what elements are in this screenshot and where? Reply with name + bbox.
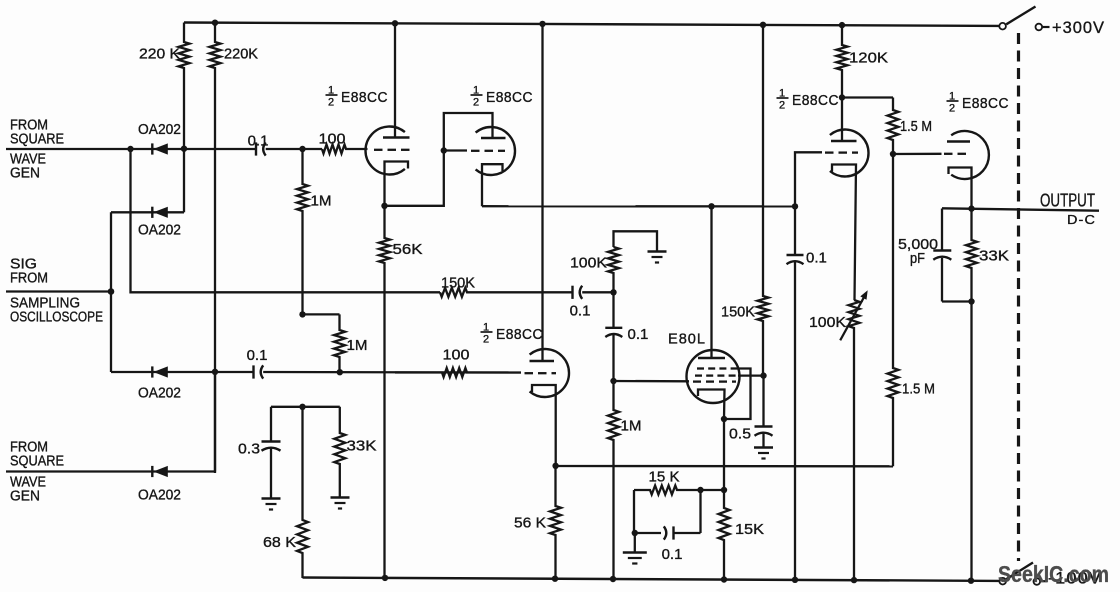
svg-text:56K: 56K bbox=[393, 241, 423, 258]
node: 15K net left junction bbox=[697, 487, 703, 493]
ground (0.5 cap) bbox=[754, 446, 773, 448]
node: V2 grid junction bbox=[441, 147, 447, 153]
resistor 56K (V1 cathode) bbox=[379, 206, 390, 578]
svg-text:150K: 150K bbox=[441, 275, 475, 292]
wire: 0.3/33K row bbox=[271, 406, 340, 408]
node: rail junction 1M-E80L bbox=[610, 576, 616, 582]
node: V4 anode junction bbox=[839, 94, 845, 100]
wire: sampling scope input line bbox=[6, 290, 111, 292]
wire: chassis boundary (dashed) bbox=[1017, 33, 1020, 561]
resistor 220K (right) bbox=[210, 23, 221, 372]
V5 cathode bbox=[949, 168, 972, 209]
svg-text:2: 2 bbox=[949, 103, 955, 115]
node: D3 / 220K-right / D4 junction bbox=[212, 369, 218, 375]
node: junction 1M-1 bbox=[299, 146, 305, 152]
node: rail junction 56K-V1 bbox=[382, 575, 388, 581]
node: E80L grid junction bbox=[610, 378, 616, 384]
node: rail junction tube1 anode bbox=[392, 20, 398, 26]
svg-text:OSCILLOSCOPE: OSCILLOSCOPE bbox=[10, 310, 103, 326]
E80L suppressor grid g3 + tie to cathode bbox=[697, 369, 751, 420]
svg-text:0.1: 0.1 bbox=[662, 546, 683, 563]
resistor 1M (second) bbox=[303, 314, 346, 372]
resistor 220K (left) bbox=[179, 23, 190, 149]
svg-text:100K: 100K bbox=[570, 255, 607, 272]
wire: riser from top line to 150K row bbox=[131, 149, 441, 292]
node: output junction bbox=[968, 205, 974, 211]
V2 anode loop from grid node bbox=[444, 113, 493, 151]
resistor 150K (screen dropper) bbox=[758, 25, 769, 376]
ground (33K) bbox=[331, 496, 350, 498]
svg-text:OA202: OA202 bbox=[138, 223, 181, 239]
label 5,000 pF bbox=[898, 236, 938, 267]
tube V2 1/2 E88CC envelope bbox=[476, 127, 515, 175]
diode OA202 D4 bbox=[151, 466, 153, 477]
svg-text:FROM: FROM bbox=[10, 271, 48, 287]
node: E80L anode junction bbox=[708, 203, 714, 209]
switch S2 (-100V) bbox=[999, 578, 1006, 585]
resistor 1.5M (level shift lower) bbox=[888, 154, 899, 466]
svg-text:OA202: OA202 bbox=[138, 122, 181, 138]
node: 100K / E80L grid feed junction bbox=[610, 289, 616, 295]
node: 15K network junction (right) bbox=[721, 487, 727, 493]
svg-text:pF: pF bbox=[910, 250, 925, 267]
svg-text:OA202: OA202 bbox=[138, 386, 181, 402]
svg-text:220 K: 220 K bbox=[139, 47, 180, 63]
tube V4 1/2 E88CC envelope bbox=[830, 130, 869, 177]
svg-text:SQUARE: SQUARE bbox=[10, 132, 64, 148]
resistor 150K (series) bbox=[440, 288, 573, 297]
wire: 100K top to ground bbox=[614, 231, 658, 251]
svg-text:GEN: GEN bbox=[10, 489, 40, 505]
V3 anode lead + plate bar bbox=[541, 24, 543, 361]
node: V1 cathode junction bbox=[381, 203, 387, 209]
wire: output network to -100V rail bbox=[970, 302, 972, 581]
capacitor 0.1 (V2 cathode bus bypass) bbox=[787, 206, 804, 579]
resistor 120K (V4 plate load) bbox=[837, 25, 848, 97]
V2 grid wire + dashes bbox=[444, 149, 467, 151]
ground (15K network) bbox=[623, 533, 647, 564]
svg-text:GEN: GEN bbox=[10, 166, 40, 182]
node: rail junction tube3 anode bbox=[539, 21, 545, 27]
svg-text:68 K: 68 K bbox=[263, 534, 296, 551]
svg-text:2: 2 bbox=[473, 97, 479, 109]
node: rail junction at 220K right bbox=[212, 20, 218, 26]
svg-text:E88CC: E88CC bbox=[341, 89, 388, 106]
svg-text:D-C: D-C bbox=[1067, 212, 1096, 227]
wire: top square-wave input line bbox=[6, 148, 256, 150]
svg-text:1M: 1M bbox=[347, 337, 368, 354]
E80L screen grid g2 + feed bbox=[695, 374, 764, 376]
svg-text:100K: 100K bbox=[809, 314, 846, 331]
wire: bus to V4 grid bbox=[795, 152, 822, 206]
V5 grid wire + dashes bbox=[893, 153, 942, 155]
svg-text:E88CC: E88CC bbox=[792, 92, 839, 109]
svg-text:1M: 1M bbox=[621, 418, 642, 435]
node: 0.1 / ground junction bbox=[632, 530, 638, 536]
ground (0.3 cap) bbox=[262, 497, 281, 499]
V3 cathode bbox=[532, 385, 556, 466]
ground (100K) bbox=[648, 250, 667, 252]
svg-text:33K: 33K bbox=[347, 438, 377, 455]
V5 anode bar bbox=[947, 140, 970, 142]
capacitor 5000pF bbox=[933, 209, 971, 302]
diode OA202 D1 bbox=[151, 143, 153, 154]
wire: 15K left branch down bbox=[633, 490, 635, 533]
svg-text:0.1: 0.1 bbox=[806, 250, 827, 267]
svg-text:100: 100 bbox=[443, 347, 470, 364]
V4 cathode bbox=[832, 165, 856, 301]
node: rail junction 56K-V3 bbox=[552, 576, 558, 582]
svg-text:1.5 M: 1.5 M bbox=[900, 118, 932, 135]
capacitor 0.1 (E80L grid) bbox=[612, 292, 614, 328]
wire: 220K-right lower leg to D4 corner bbox=[214, 372, 216, 474]
resistor 68K bbox=[297, 407, 308, 578]
node: rail junction 15K bbox=[721, 576, 727, 582]
node: V3 cathode junction bbox=[552, 463, 558, 469]
V3 grid dashes bbox=[525, 372, 534, 374]
E80L cathode bbox=[698, 390, 725, 420]
wire: cap to 100 ohm bbox=[266, 148, 322, 150]
resistor 33K (output load) bbox=[966, 209, 977, 302]
tube V6 E80L envelope bbox=[687, 350, 740, 403]
capacitor 0.1 (15K bypass) bbox=[635, 490, 701, 540]
wire: cap to tube3 grid bbox=[263, 371, 521, 374]
node: D1 cathode / 220K-left junction bbox=[181, 146, 187, 152]
svg-text:0.1: 0.1 bbox=[247, 347, 268, 364]
wire: bottom square-wave input line bbox=[6, 470, 215, 472]
wire: D3 row bbox=[111, 371, 254, 373]
capacitor 0.1 (D3 row) bbox=[252, 365, 254, 378]
node: rail junction 150K screen feed bbox=[760, 22, 766, 28]
svg-text:0.1: 0.1 bbox=[628, 326, 649, 343]
svg-text:SeekIC.com: SeekIC.com bbox=[998, 561, 1109, 587]
V1 anode lead + plate bar bbox=[394, 23, 396, 137]
resistor 33K (bias) bbox=[334, 407, 345, 497]
diode OA202 D2 bbox=[151, 207, 153, 218]
node: E80L cathode junction bbox=[721, 416, 727, 422]
svg-text:E88CC: E88CC bbox=[496, 326, 543, 343]
switch S1 (B+ on/off) bbox=[999, 23, 1006, 30]
wire: 15K node link bbox=[701, 489, 725, 491]
V4 grid dashes bbox=[825, 151, 834, 153]
wire: V2 cathode bus to E80L anode and V4 grid feed bbox=[482, 205, 795, 207]
node: rail junction 0.1 bypass bbox=[792, 577, 798, 583]
svg-text:2: 2 bbox=[779, 100, 785, 112]
V2 cathode bbox=[482, 164, 503, 206]
svg-text:1.5 M: 1.5 M bbox=[902, 381, 935, 398]
tube V1 1/2 E88CC envelope bbox=[365, 126, 404, 174]
svg-text:120K: 120K bbox=[849, 50, 888, 67]
node: scope input junction bbox=[108, 288, 115, 295]
node: rail junction 120K bbox=[839, 22, 845, 28]
tube V3 1/2 E88CC envelope bbox=[530, 349, 569, 397]
svg-text:SQUARE: SQUARE bbox=[10, 454, 64, 470]
wire: bottom -100V rail bbox=[303, 578, 1000, 581]
svg-text:E80L: E80L bbox=[668, 331, 706, 348]
svg-text:15 K: 15 K bbox=[649, 469, 680, 486]
node: 0.1 bypass / V4 grid junction bbox=[792, 203, 798, 209]
resistor 100 (tube1 grid stopper) bbox=[322, 145, 368, 154]
svg-text:33K: 33K bbox=[979, 248, 1009, 265]
wire: level-shift line to 1.5M-2 bbox=[556, 465, 893, 468]
resistor 1.5M (level shift upper) bbox=[842, 98, 899, 155]
capacitor 0.1 (series, signal) bbox=[571, 286, 573, 299]
resistor 15K (vertical, to -100V rail) bbox=[719, 490, 730, 579]
wire: OUTPUT line bbox=[942, 208, 1099, 210]
resistor 56K (V3 cathode) bbox=[550, 466, 561, 579]
svg-text:0.1: 0.1 bbox=[248, 133, 269, 150]
wire: E80L cathode down to 15K node bbox=[723, 419, 725, 490]
resistor 100 (V3 grid stopper) bbox=[395, 368, 521, 377]
wire: riser D2/D3 (x=111) bbox=[110, 212, 112, 372]
wire: D2 row bbox=[111, 211, 184, 213]
capacitor 0.3 bbox=[270, 407, 272, 442]
tube V5 1/2 E88CC envelope bbox=[951, 131, 989, 179]
diode OA202 D3 bbox=[151, 366, 153, 377]
wire: V1 cathode to V2 grid (direct coupling) bbox=[385, 151, 444, 206]
svg-text:0.1: 0.1 bbox=[570, 303, 591, 320]
svg-text:0.3: 0.3 bbox=[238, 441, 260, 458]
svg-text:2: 2 bbox=[483, 334, 489, 346]
V4 anode lead + plate bar bbox=[841, 98, 843, 142]
capacitor 0.1 (top coupling) bbox=[255, 142, 257, 155]
svg-text:E88CC: E88CC bbox=[486, 89, 533, 106]
resistor 15K (feedback, horizontal) bbox=[634, 486, 701, 495]
node: screen junction bbox=[760, 372, 766, 378]
node: V5 grid junction bbox=[890, 151, 896, 157]
svg-text:OA202: OA202 bbox=[138, 488, 181, 504]
node: rail junction output network bbox=[968, 578, 974, 584]
svg-text:0.5: 0.5 bbox=[729, 426, 751, 443]
node: junction 0.3/33K row bbox=[299, 404, 305, 410]
node: junction to 0.1/150K riser bbox=[127, 146, 133, 152]
svg-text:1M: 1M bbox=[311, 193, 332, 210]
svg-text:OUTPUT: OUTPUT bbox=[1040, 191, 1095, 211]
svg-text:100: 100 bbox=[319, 131, 346, 148]
svg-text:+300V: +300V bbox=[1052, 18, 1105, 37]
node: 1M-2 bottom junction bbox=[337, 369, 343, 375]
wire: 220K-left lower leg bbox=[183, 149, 185, 213]
wire: top +300V rail bbox=[184, 23, 999, 26]
svg-text:220K: 220K bbox=[224, 47, 258, 63]
node: 33K/5000pF bottom junction bbox=[968, 298, 974, 304]
wire: to E80L control grid bbox=[614, 380, 690, 383]
V1 grid dashes bbox=[374, 149, 383, 151]
resistor 1M (E80L grid leak) bbox=[608, 381, 619, 579]
svg-text:15K: 15K bbox=[735, 521, 764, 538]
resistor 1M (first, from top line) bbox=[297, 149, 308, 314]
capacitor 0.5 (screen bypass) bbox=[762, 376, 764, 427]
svg-text:56 K: 56 K bbox=[514, 515, 546, 532]
resistor 100K (grid return) bbox=[608, 247, 619, 292]
svg-text:E88CC: E88CC bbox=[962, 95, 1009, 112]
V1 cathode bbox=[385, 162, 409, 206]
wire: D4 to D3 node bbox=[214, 372, 216, 472]
E80L control grid g1 dashes bbox=[693, 380, 701, 382]
svg-text:2: 2 bbox=[328, 97, 334, 109]
svg-text:150K: 150K bbox=[721, 304, 755, 321]
node: junction 1M-2 top bbox=[299, 311, 305, 317]
variable resistor 100K (pot) bbox=[840, 290, 868, 580]
node: rail junction 100K pot bbox=[851, 577, 857, 583]
wire: cap to grid node bbox=[582, 291, 613, 293]
E80L anode lead + plate bar bbox=[710, 206, 712, 358]
